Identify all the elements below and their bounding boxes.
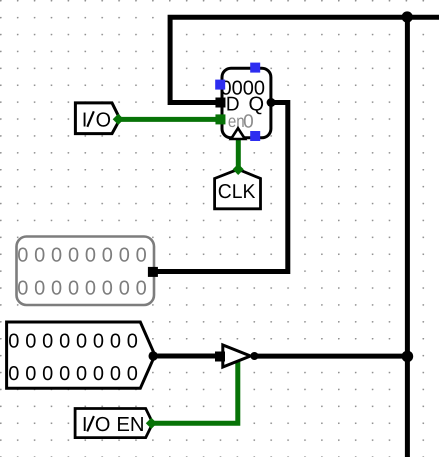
buffer input connector square [215,352,225,362]
register Q output dot [267,98,276,107]
register U1 body [222,68,271,138]
svg-text:00000000: 00000000 [8,363,143,385]
tunnel I/O EN [75,409,153,438]
svg-text:00000000: 00000000 [8,330,143,352]
register port square (upper left) [215,80,225,90]
register clock triangle [231,128,245,139]
junction dot top right [402,11,413,22]
register port square (bottom) [250,131,260,141]
output pin connector square [148,267,158,277]
tunnel I/O [75,103,120,134]
svg-text:00000000: 00000000 [17,277,152,299]
wire: register Q output right, down, left to output pin connector [153,103,288,272]
wire: green, register clock down to CLK tunnel [236,136,241,170]
green diamond node at CLK tunnel point [233,164,244,175]
wire: green, I/O tunnel to register enable input [116,117,220,122]
output pin (16-bit, gray rounded box) [17,237,155,306]
svg-text:I: I [82,109,88,131]
input pin (16-bit pentagon) [7,322,155,388]
junction dot buffer row right [402,351,414,363]
tunnel CLK [215,169,261,209]
register port square (top) [250,63,260,73]
svg-text:00000000: 00000000 [17,245,152,267]
wire: right vertical bus from top wire to bottom edge [405,15,410,457]
svg-text:O: O [96,109,111,131]
svg-text:I: I [82,414,88,436]
green diamond node at I/O EN tunnel point [146,418,157,429]
register D input connector square [215,98,225,108]
register EN input connector square [215,114,225,124]
controlled buffer [223,345,251,367]
svg-text:0: 0 [243,112,254,133]
svg-text:CLK: CLK [218,181,256,203]
svg-text:O: O [95,414,111,436]
input pin connection dot [149,351,158,360]
wire: top horizontal bus bending down at left to register D input [170,17,439,102]
svg-text:EN: EN [116,414,144,436]
wire: green, I/O EN tunnel right then up to buffer enable [153,360,238,424]
green diamond node at I/O tunnel point [113,114,124,125]
wire: buffer output to right vertical bus [254,354,407,359]
buffer output dot [250,352,258,360]
wire: input pin to buffer input [153,354,221,359]
